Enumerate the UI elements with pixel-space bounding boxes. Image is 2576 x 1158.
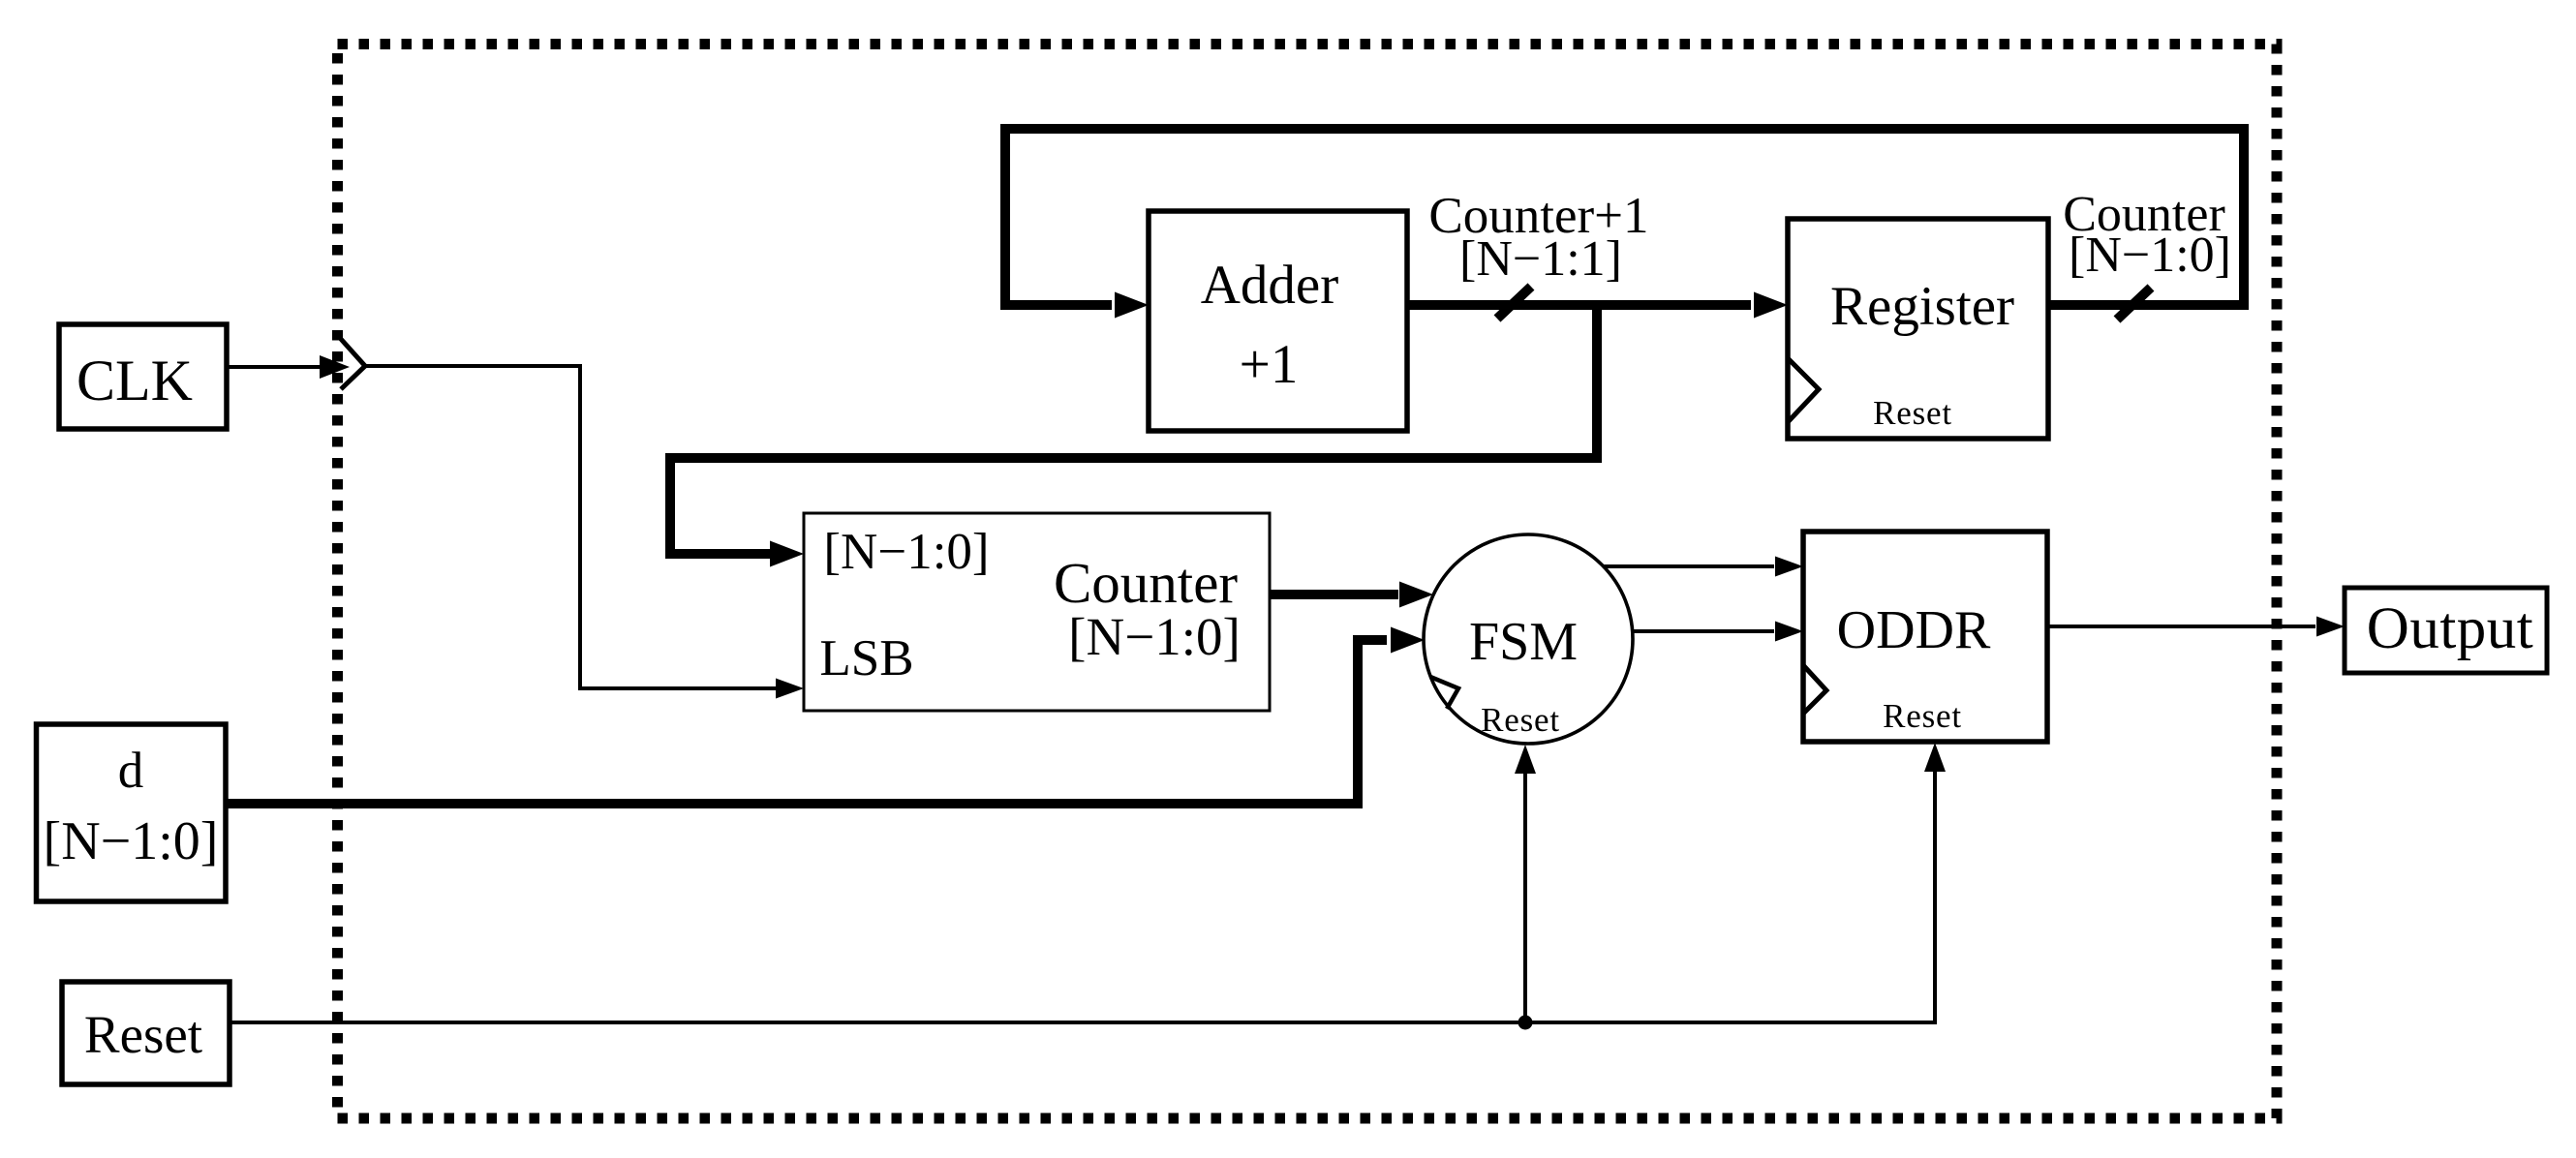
arrowhead loop into Adder xyxy=(1115,292,1149,319)
wire FSM to ODDR lower xyxy=(1633,629,1774,633)
wire FSM to ODDR upper xyxy=(1604,564,1774,568)
Reset box xyxy=(62,982,230,1084)
slash bus mark on Register output xyxy=(2117,288,2151,320)
bus wire Adder output to Register input xyxy=(1407,300,1751,310)
dashed module boundary xyxy=(338,45,2278,1119)
CLK box xyxy=(59,324,227,429)
wire ODDR output to Output box xyxy=(2047,625,2315,628)
svg-text:Reset: Reset xyxy=(1883,697,1962,735)
svg-text:LSB: LSB xyxy=(819,630,913,686)
arrowhead Counter output into FSM xyxy=(1399,582,1433,608)
svg-text:ODDR: ODDR xyxy=(1837,600,1991,660)
wire CLK net: chevron to LSB input of Counter xyxy=(365,366,777,688)
Counter box xyxy=(804,513,1270,711)
svg-text:Reset: Reset xyxy=(1481,701,1560,739)
FSM circle xyxy=(1424,534,1633,744)
svg-text:Counter: Counter xyxy=(1054,551,1238,615)
arrowhead branch into Counter xyxy=(770,541,804,567)
svg-text:Reset: Reset xyxy=(84,1005,202,1064)
svg-text:[N−1:0]: [N−1:0] xyxy=(44,811,219,871)
clock chevron at boundary (CLK entry) xyxy=(340,338,365,389)
svg-text:Reset: Reset xyxy=(1873,394,1952,432)
bus wire Counter output to FSM xyxy=(1270,590,1398,599)
junction dot Reset net xyxy=(1518,1016,1533,1030)
svg-text:Adder: Adder xyxy=(1201,255,1338,316)
arrowhead CLK net into Counter LSB pin xyxy=(776,679,804,699)
arrowhead into Output box xyxy=(2316,617,2345,637)
svg-text:d: d xyxy=(118,743,144,799)
bus wire d to FSM xyxy=(226,640,1387,804)
arrowhead FSM upper into ODDR xyxy=(1775,557,1803,577)
Adder box xyxy=(1149,211,1407,431)
svg-text:FSM: FSM xyxy=(1469,612,1578,672)
ODDR box xyxy=(1803,532,2047,742)
svg-text:CLK: CLK xyxy=(77,349,193,412)
svg-text:Register: Register xyxy=(1830,276,2014,337)
arrowhead FSM lower into ODDR xyxy=(1775,622,1803,642)
svg-text:+1: +1 xyxy=(1240,334,1299,395)
arrowhead CLK into boundary xyxy=(320,355,350,379)
svg-text:[N−1:0]: [N−1:0] xyxy=(2069,228,2231,283)
clock chevron on FSM xyxy=(1430,677,1458,709)
slash bus mark on Adder output xyxy=(1497,287,1531,319)
wire Reset branch to FSM xyxy=(1523,772,1527,1022)
wire Reset net xyxy=(230,770,1935,1022)
clock chevron on ODDR xyxy=(1803,665,1826,714)
d [N-1:0] box xyxy=(37,724,227,901)
Register box xyxy=(1788,219,2048,439)
svg-text:[N−1:1]: [N−1:1] xyxy=(1459,231,1622,287)
Output box xyxy=(2345,588,2547,673)
arrowhead d bus into FSM xyxy=(1391,627,1425,654)
arrowhead Reset into FSM xyxy=(1515,745,1536,774)
bus wire branch Adder output down to Counter [N-1:0] input xyxy=(670,305,1597,554)
wire CLK to boundary xyxy=(227,365,322,369)
arrowhead Adder output into Register xyxy=(1754,292,1788,319)
svg-text:[N−1:0]: [N−1:0] xyxy=(1068,607,1241,666)
clock chevron on Register xyxy=(1788,358,1819,422)
svg-text:Output: Output xyxy=(2367,596,2533,661)
svg-text:[N−1:0]: [N−1:0] xyxy=(823,524,989,580)
arrowhead Reset into ODDR xyxy=(1924,743,1946,772)
bus wire feedback loop: Register output around to Adder input xyxy=(1005,129,2244,305)
